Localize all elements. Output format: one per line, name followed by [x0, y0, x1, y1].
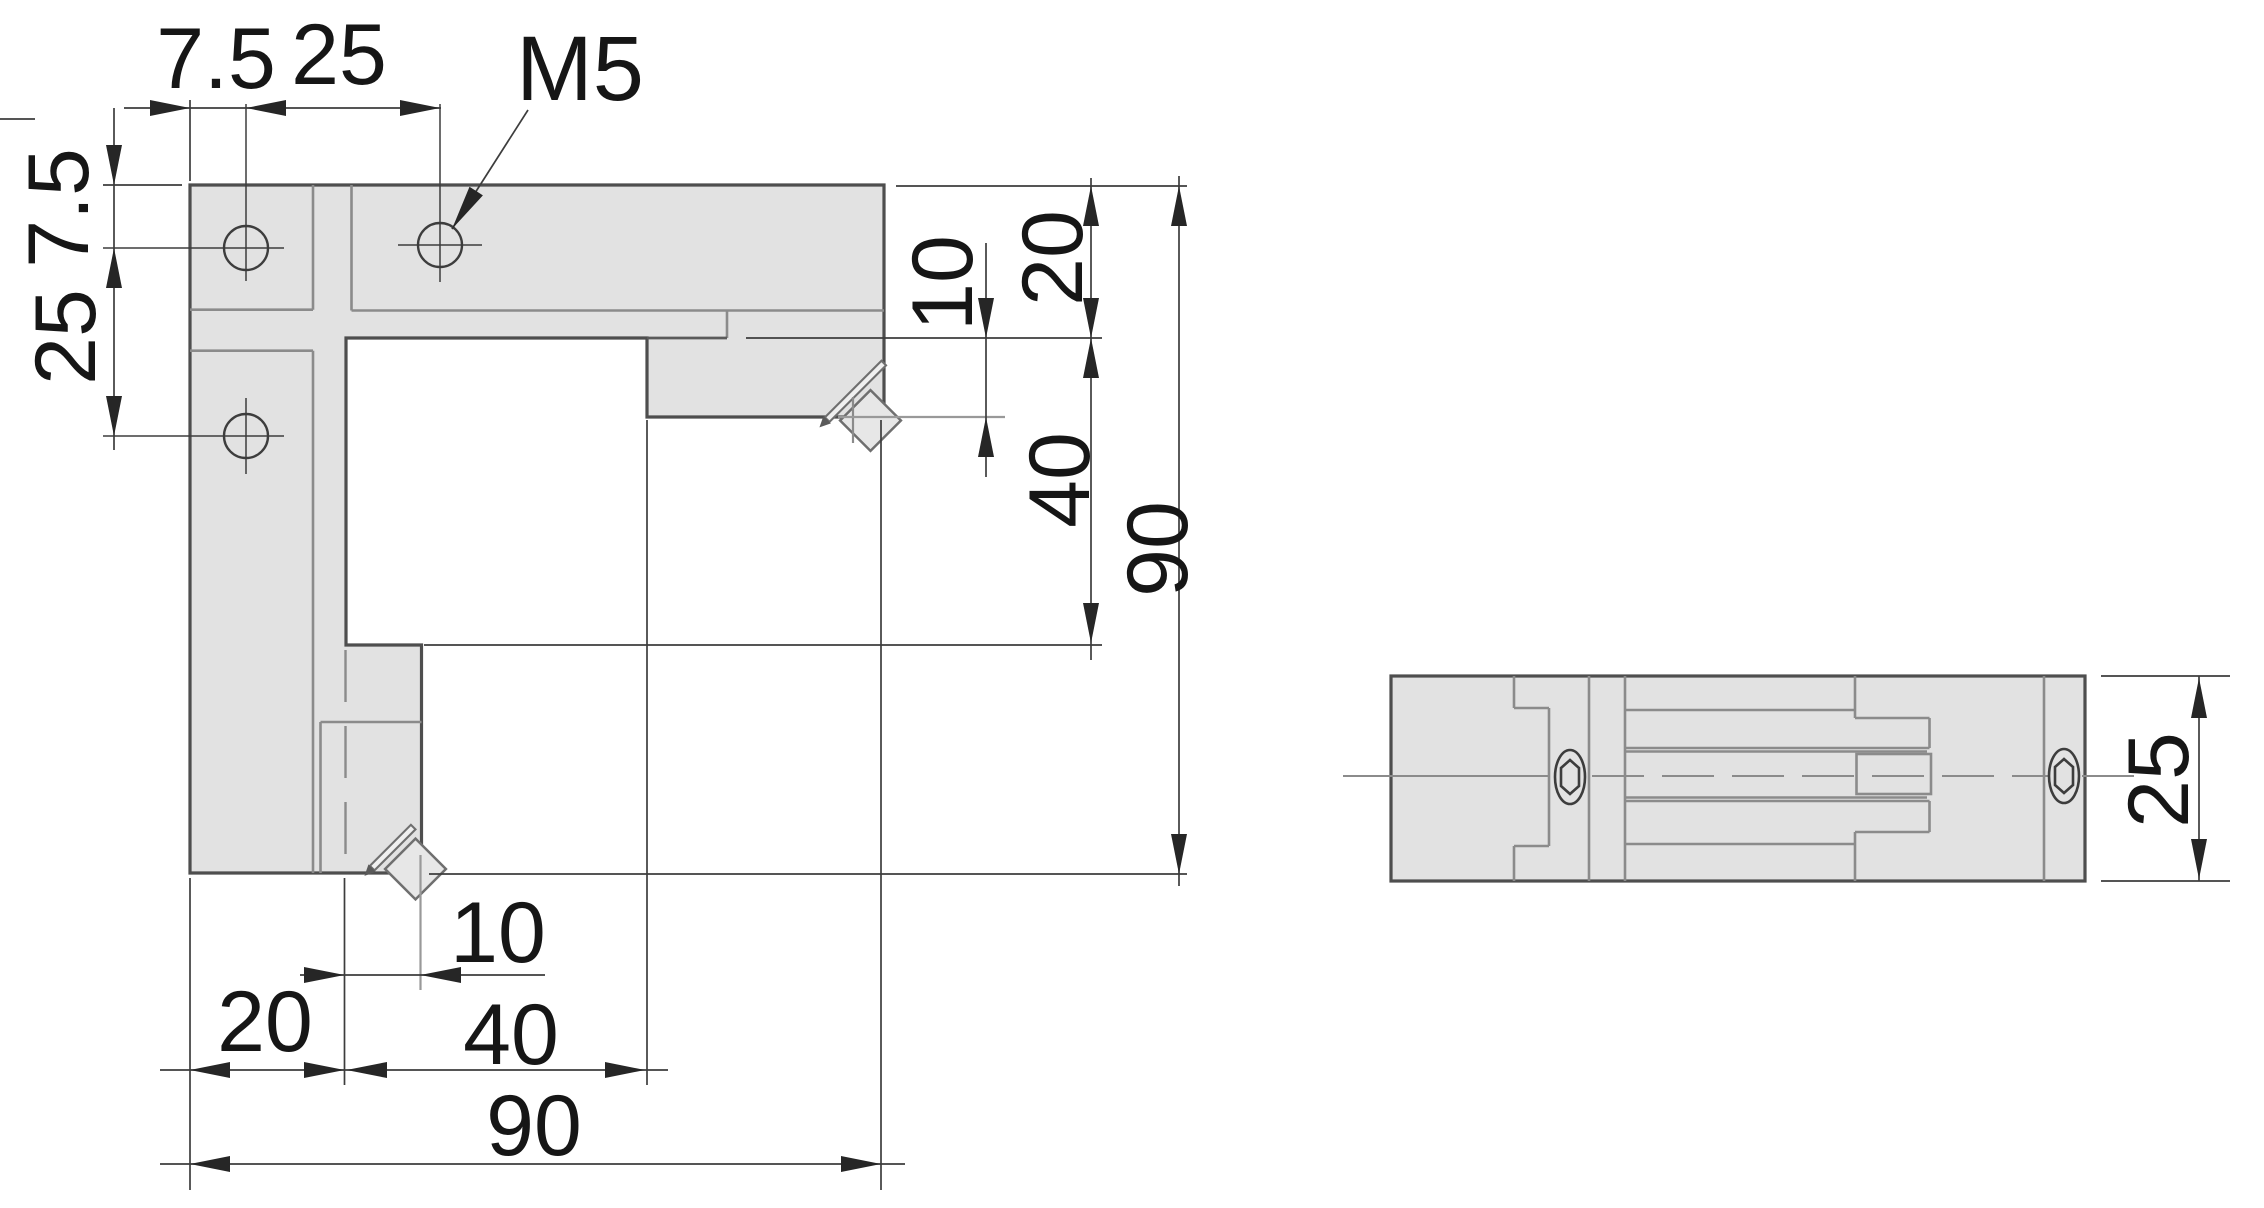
svg-text:40: 40 — [463, 987, 559, 1083]
svg-text:25: 25 — [2111, 732, 2207, 828]
svg-text:7.5: 7.5 — [11, 148, 107, 268]
svg-text:M5: M5 — [516, 18, 644, 120]
svg-text:25: 25 — [18, 289, 114, 385]
svg-text:25: 25 — [291, 7, 387, 103]
svg-text:90: 90 — [1110, 501, 1206, 597]
svg-text:7.5: 7.5 — [156, 11, 276, 107]
svg-text:20: 20 — [1005, 210, 1101, 306]
svg-text:10: 10 — [895, 235, 991, 331]
svg-text:10: 10 — [450, 885, 546, 981]
svg-text:20: 20 — [217, 974, 313, 1070]
svg-text:40: 40 — [1012, 432, 1108, 528]
svg-text:90: 90 — [486, 1078, 582, 1174]
